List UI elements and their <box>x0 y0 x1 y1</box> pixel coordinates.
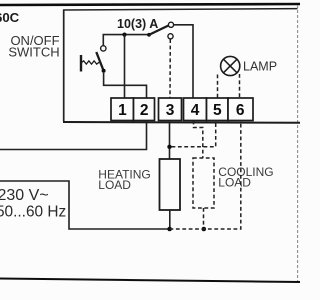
main switch lower contact circle <box>168 34 173 39</box>
thermostat switch lever <box>96 52 103 71</box>
right faint border <box>297 5 299 281</box>
thermostat actuator spring (zigzag) <box>82 61 100 64</box>
dashed wire: terminal 4 stub down-right-down to cooling load <box>194 121 203 158</box>
svg-text:3: 3 <box>166 102 175 119</box>
junction dot heating bottom <box>167 227 172 232</box>
terminal 1 <box>111 98 134 121</box>
svg-text:LAMP: LAMP <box>243 59 277 73</box>
wire: thermostat lever pivot down, right, down to terminal 2 <box>104 73 147 98</box>
wire: junction down to terminal 1 <box>124 35 126 98</box>
thermostat actuator T-bar <box>80 55 82 72</box>
svg-text:LOAD: LOAD <box>218 175 251 189</box>
dashed wire: lamp left lead to terminal 5 <box>217 75 219 98</box>
junction dot heating node <box>167 145 171 149</box>
label COOLING LOAD <box>218 165 273 189</box>
bottom frame line <box>0 279 300 283</box>
terminal 2 <box>134 98 155 121</box>
svg-text:50...60 Hz: 50...60 Hz <box>0 203 66 220</box>
wire: contact circle up and right to main switch <box>103 35 149 46</box>
label ON/OFF SWITCH <box>8 33 59 60</box>
terminal 5 <box>207 98 229 121</box>
svg-text:4: 4 <box>191 102 200 119</box>
main switch lever <box>149 26 169 35</box>
wire: upper contact right then down to terminal 4 <box>174 25 193 98</box>
svg-text:6: 6 <box>236 102 245 119</box>
dashed wire: bottom rail to terminal 6 <box>170 121 241 229</box>
label HEATING LOAD <box>98 168 150 193</box>
thermostat lever pivot dot <box>102 69 106 73</box>
wire: heating load bottom to rail <box>169 210 171 229</box>
junction dot cooling bottom <box>202 227 207 232</box>
thermostat contact circle <box>101 46 106 51</box>
top frame line <box>0 4 300 5</box>
svg-text:LOAD: LOAD <box>98 178 131 192</box>
svg-text:SWITCH: SWITCH <box>8 44 59 59</box>
dashed wire: lamp right lead to terminal 6 <box>239 74 241 98</box>
svg-text:2: 2 <box>140 102 149 119</box>
svg-text:60C: 60C <box>0 10 20 25</box>
main switch upper contact circle <box>168 22 173 27</box>
lamp symbol <box>221 56 240 75</box>
wire: terminal 3 down to heating node <box>169 121 171 160</box>
terminal 4 <box>184 98 207 121</box>
junction dot node L <box>122 33 126 37</box>
terminal 3 <box>159 98 182 121</box>
svg-text:1: 1 <box>118 102 127 119</box>
thermostat enclosure box <box>63 9 300 123</box>
svg-text:5: 5 <box>213 102 222 119</box>
terminal 6 <box>228 98 253 121</box>
dashed wire: heating node right then up to terminal 5 <box>172 121 216 147</box>
svg-text:230 V~: 230 V~ <box>0 187 49 204</box>
dashed wire: cooling load bottom to rail <box>203 208 205 229</box>
wire: live feed step from left edge down to bottom rail <box>0 181 170 229</box>
dashed wire: lower contact down to terminal 3 <box>169 39 171 97</box>
main switch pivot dot <box>147 33 151 37</box>
svg-text:10(3) A: 10(3) A <box>117 17 158 31</box>
wire: terminal 2 down then left (neutral feed) <box>0 121 147 150</box>
resistor heating load <box>160 159 181 210</box>
resistor cooling load (dashed) <box>193 158 214 208</box>
